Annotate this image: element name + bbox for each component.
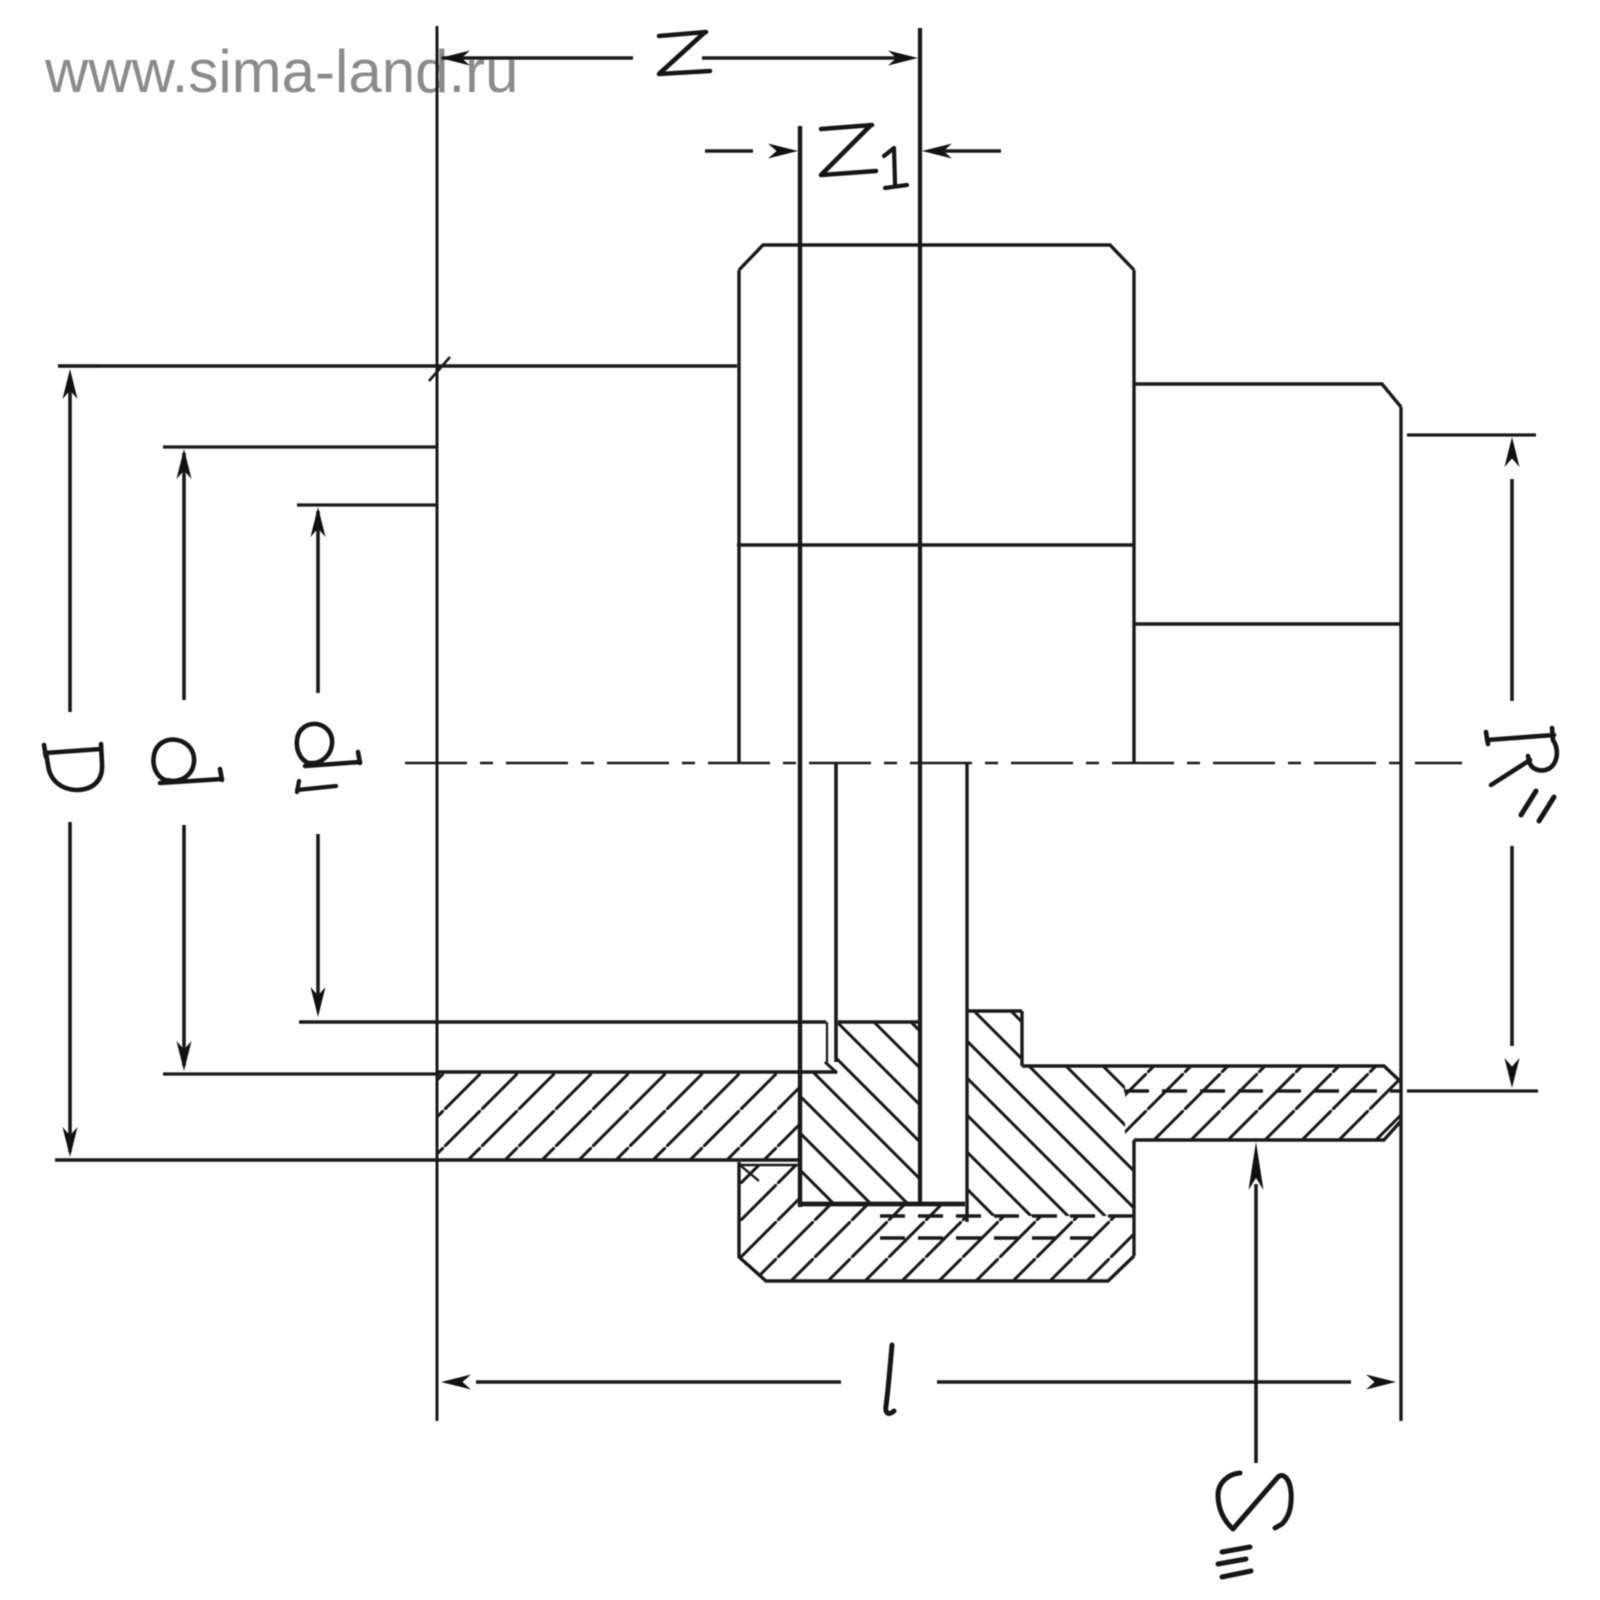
dimension Z1 line <box>705 149 1001 153</box>
label Z <box>659 32 710 74</box>
dimension R line <box>1510 479 1514 1046</box>
svg-text:www.sima-land.ru: www.sima-land.ru <box>44 38 518 105</box>
arrow D top <box>63 369 78 399</box>
label Z1 subscript 1 <box>884 148 907 188</box>
arrow l right <box>1366 1375 1396 1390</box>
groove bottom corner <box>825 1062 837 1073</box>
arrow l left <box>441 1375 471 1390</box>
label S <box>1218 1473 1291 1529</box>
dimension l line <box>476 1380 1351 1384</box>
dimension D line <box>68 380 72 1152</box>
adapter top edge <box>1134 384 1401 407</box>
adapter socket step <box>967 1011 1022 1066</box>
body bottom edge <box>55 1158 800 1161</box>
dimension d line <box>182 453 186 1066</box>
label l <box>886 1345 894 1413</box>
dimension d1 extension <box>297 503 437 506</box>
body top edge <box>58 364 737 367</box>
label d <box>153 740 222 783</box>
nut shoulder chamfer <box>741 1166 759 1181</box>
dimension Sw line <box>1254 1184 1258 1463</box>
dimension d extensions <box>163 447 440 1074</box>
hatch right adapter socket wall <box>967 1011 1134 1216</box>
arrow d bottom <box>177 1041 192 1071</box>
arrow Sw <box>1249 1142 1264 1190</box>
dimension D top extension <box>58 364 100 367</box>
hatch left socket bottom wall <box>437 1072 800 1160</box>
arrow Z left <box>440 51 470 66</box>
adapter bore line <box>1022 1066 1401 1082</box>
body left end face <box>436 26 439 1421</box>
label S subscript w <box>1218 1547 1251 1577</box>
arrow D bottom <box>63 1127 78 1157</box>
nut thread dashed line 1 <box>880 1214 1134 1217</box>
thread root dashed line <box>1124 1089 1401 1092</box>
label R <box>1486 728 1557 785</box>
label R primes <box>1521 791 1554 821</box>
hatch union nut lower section <box>739 1165 1134 1281</box>
arrow Z1 right <box>922 144 952 159</box>
label d1 subscript 1 <box>297 781 336 792</box>
left piece end face line x800 <box>798 126 802 1207</box>
dimension Z line <box>442 56 904 60</box>
arrow R bottom <box>1505 1058 1520 1088</box>
break slash at body top left <box>429 357 450 381</box>
dimension R extensions <box>1407 435 1538 1091</box>
arrow d1 bottom <box>311 987 326 1017</box>
adapter bottom edge <box>1134 1138 1384 1141</box>
arrow Z1 left <box>768 144 798 159</box>
hatch right adapter pipe wall <box>1125 1066 1401 1140</box>
adapter feature line <box>1134 622 1401 625</box>
groove wall <box>826 1022 828 1062</box>
nut hex facet line <box>737 543 1134 546</box>
nut inner shoulder step <box>739 1164 799 1167</box>
groove wall x836 <box>834 763 838 1062</box>
arrow Z right <box>888 51 918 66</box>
label D <box>44 744 102 790</box>
adapter bottom chamfer <box>1383 1121 1401 1141</box>
socket bore line <box>437 1070 837 1073</box>
arrow R top <box>1505 437 1520 467</box>
label d1 <box>297 724 360 766</box>
nut thread dashed line 2 <box>880 1236 1092 1239</box>
hatch flange block of left body <box>800 1022 920 1204</box>
flange bottom thick edge <box>799 1202 965 1207</box>
dimension d1 line <box>316 511 320 1010</box>
adapter socket face x967 <box>965 763 968 1222</box>
arrow d1 top <box>311 507 326 537</box>
label Z1 <box>821 125 876 175</box>
spigot end face x920 <box>918 28 922 1206</box>
centerline <box>405 762 1462 765</box>
arrow d top <box>177 449 192 479</box>
bore d1 line <box>299 1020 920 1023</box>
adapter right edge and l extension <box>1399 407 1402 1421</box>
union nut outline <box>739 245 1134 1281</box>
